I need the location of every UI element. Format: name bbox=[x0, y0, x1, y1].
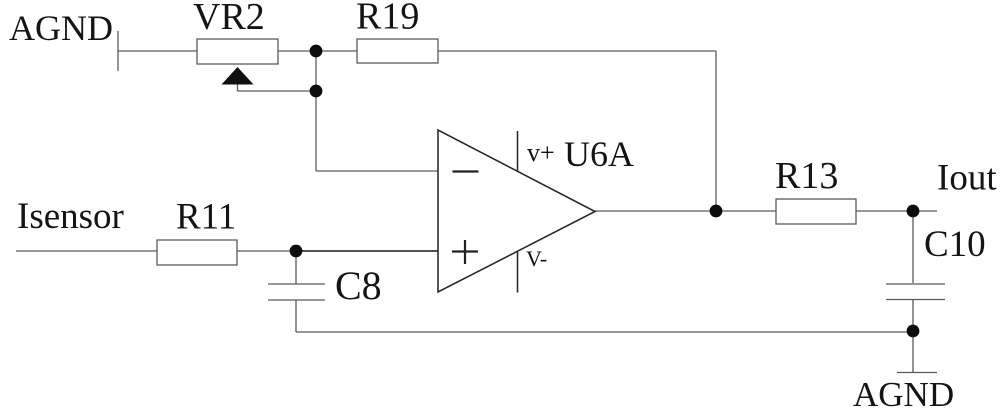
svg-text:R13: R13 bbox=[775, 155, 838, 197]
svg-text:AGND: AGND bbox=[9, 8, 113, 48]
svg-text:v+: v+ bbox=[527, 138, 555, 167]
svg-text:Isensor: Isensor bbox=[17, 196, 124, 237]
svg-text:VR2: VR2 bbox=[193, 0, 265, 38]
svg-text:R19: R19 bbox=[356, 0, 419, 38]
svg-text:R11: R11 bbox=[176, 197, 236, 238]
svg-text:U6A: U6A bbox=[564, 134, 634, 174]
svg-text:V-: V- bbox=[526, 246, 547, 271]
svg-text:C10: C10 bbox=[924, 224, 986, 265]
svg-text:C8: C8 bbox=[335, 263, 382, 308]
svg-text:AGND: AGND bbox=[853, 375, 954, 410]
svg-text:Iout: Iout bbox=[937, 158, 997, 199]
